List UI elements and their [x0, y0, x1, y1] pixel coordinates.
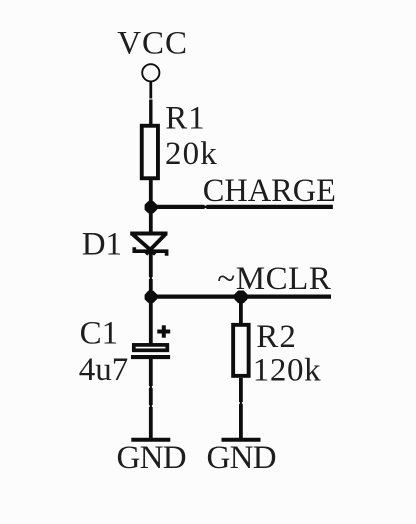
svg-text:~MCLR: ~MCLR: [217, 261, 331, 297]
svg-text:4u7: 4u7: [79, 352, 129, 388]
svg-text:R2: R2: [256, 319, 297, 355]
svg-text:GND: GND: [117, 440, 186, 476]
svg-text:GND: GND: [207, 440, 276, 476]
svg-text:D1: D1: [82, 227, 122, 263]
svg-text:20k: 20k: [165, 136, 218, 172]
svg-text:R1: R1: [165, 101, 205, 137]
svg-text:CHARGE: CHARGE: [203, 173, 336, 209]
svg-text:C1: C1: [80, 316, 119, 352]
svg-text:120k: 120k: [253, 353, 321, 389]
svg-text:VCC: VCC: [117, 26, 188, 62]
